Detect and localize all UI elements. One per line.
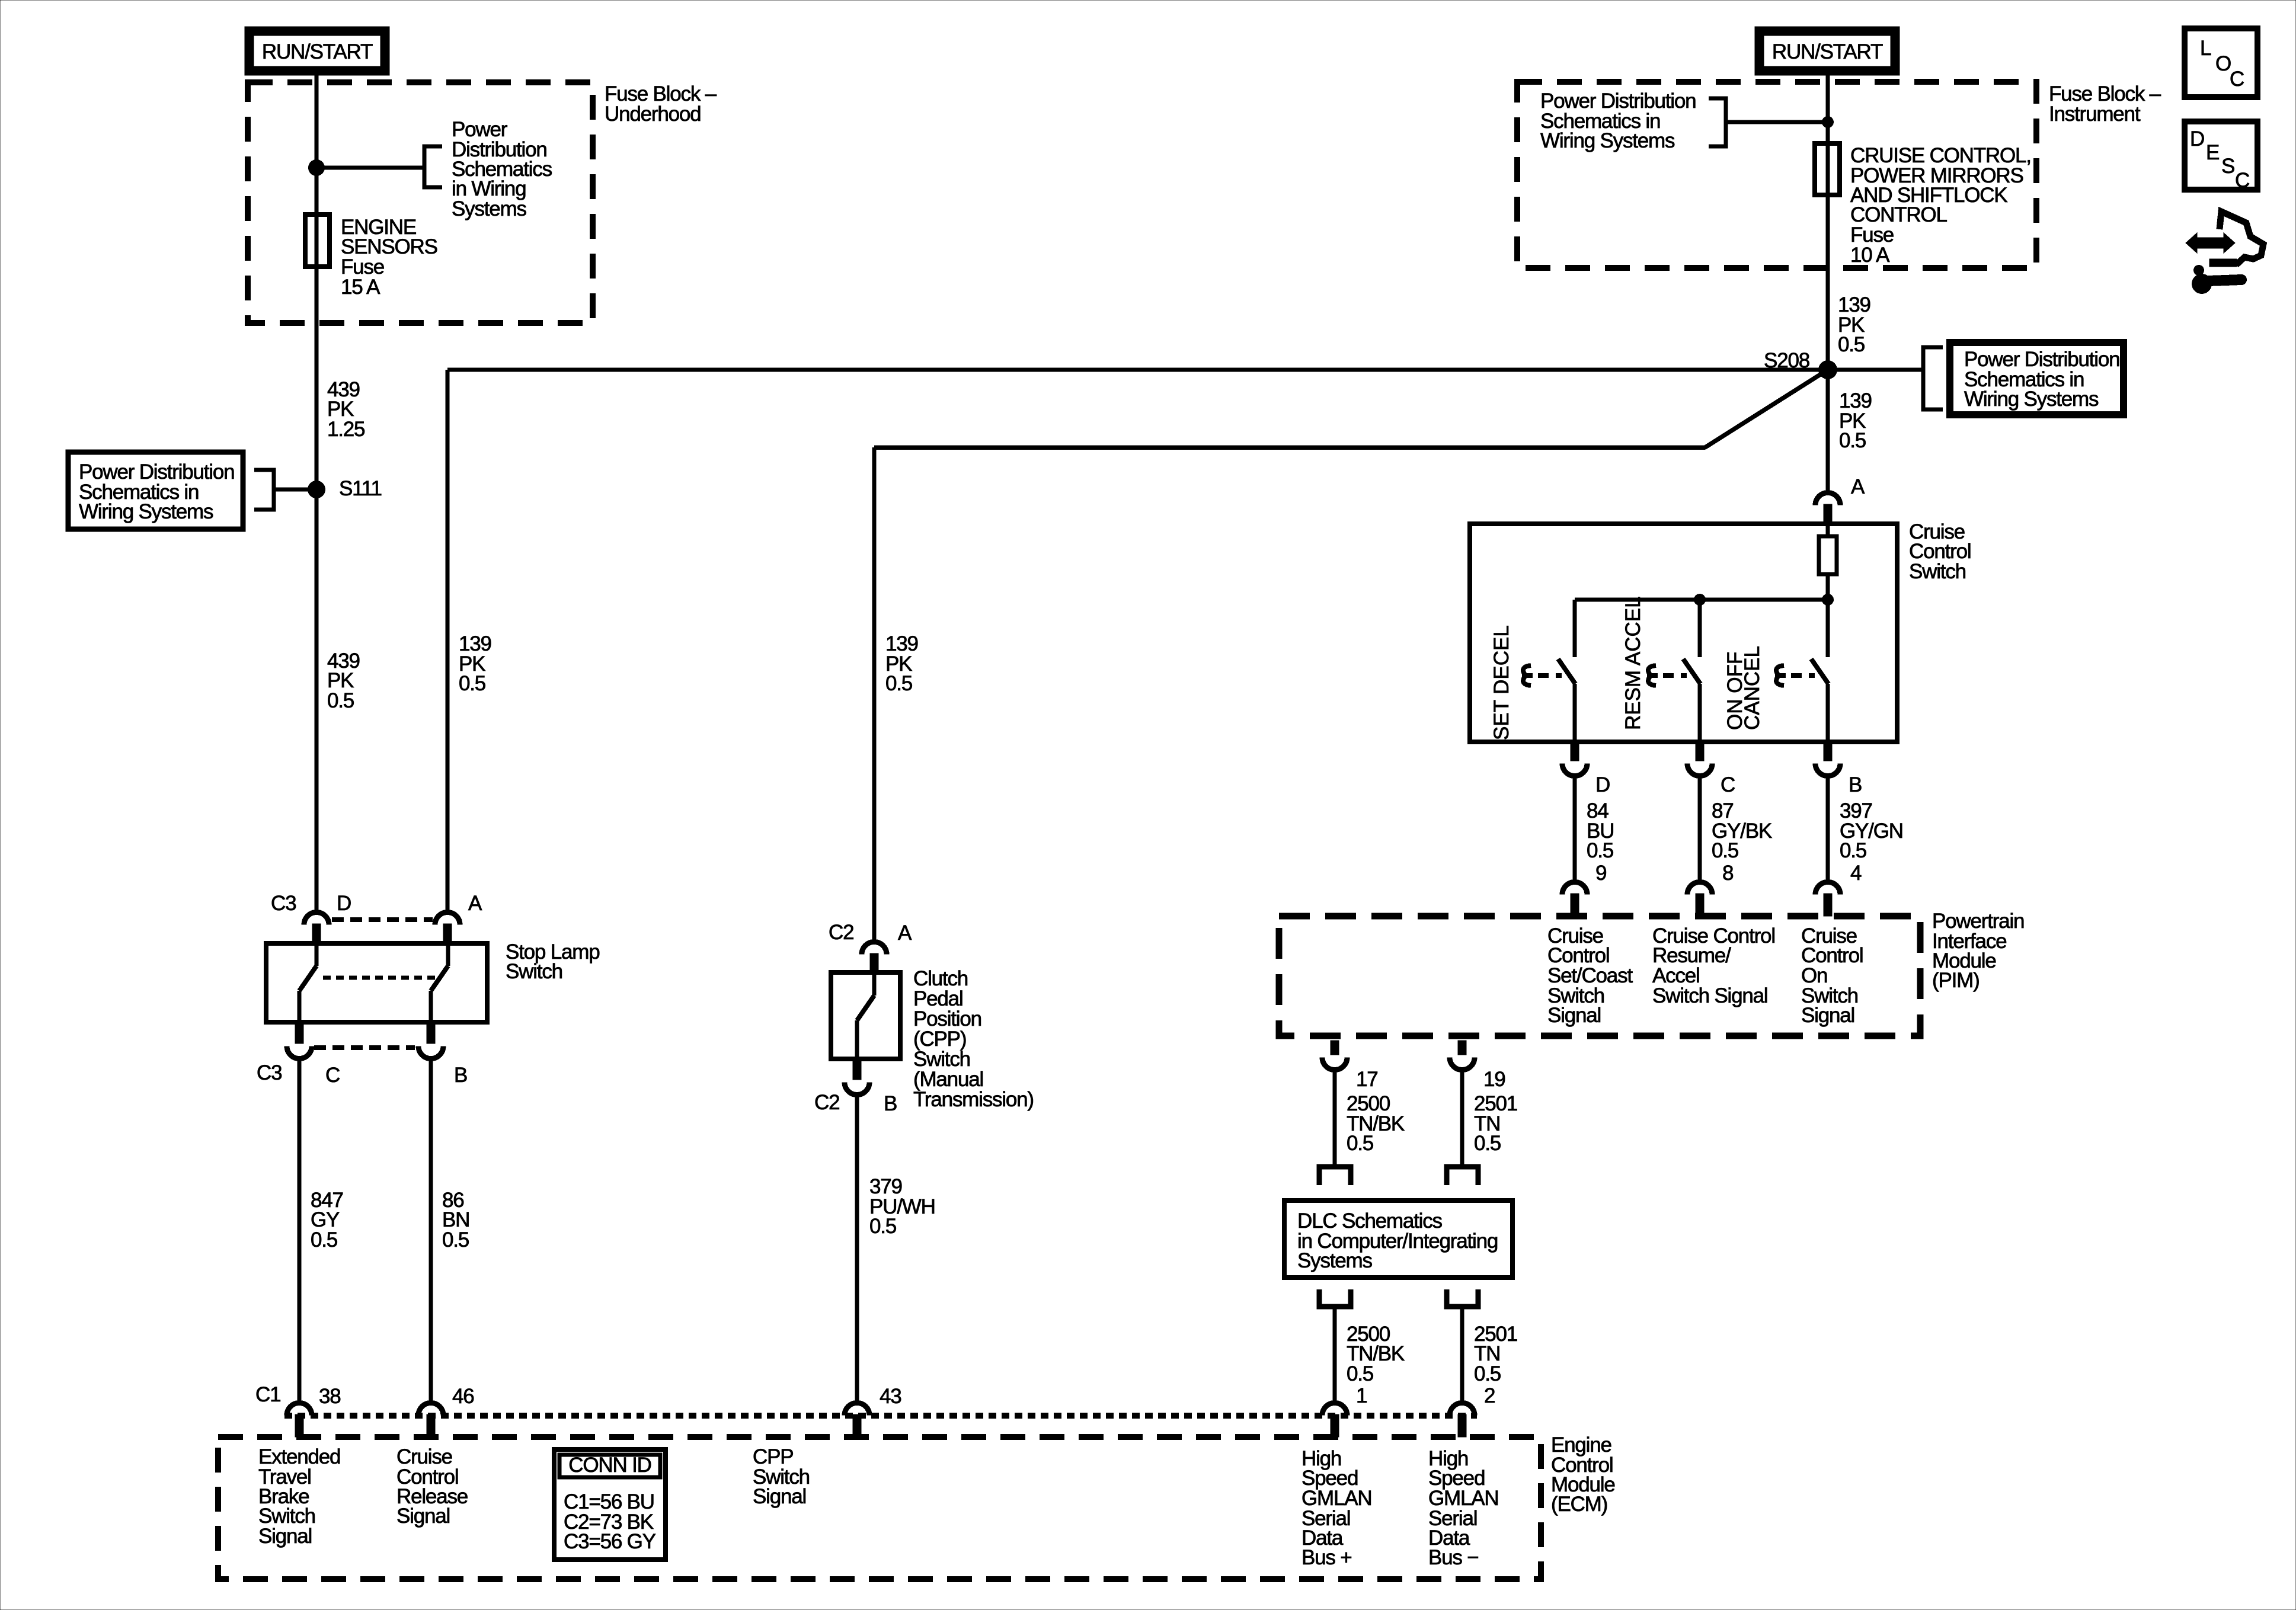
svg-text:C: C xyxy=(2235,169,2249,192)
svg-text:Transmission): Transmission) xyxy=(913,1088,1034,1111)
svg-text:Underhood: Underhood xyxy=(605,103,701,126)
svg-text:Systems: Systems xyxy=(452,197,526,220)
svg-text:0.5: 0.5 xyxy=(1474,1132,1501,1155)
svg-text:RUN/START: RUN/START xyxy=(262,40,373,63)
svg-text:Wiring Systems: Wiring Systems xyxy=(79,500,213,523)
svg-text:Signal: Signal xyxy=(396,1505,450,1528)
svg-text:2: 2 xyxy=(1484,1384,1495,1407)
svg-text:B: B xyxy=(1849,773,1862,796)
svg-text:Wiring Systems: Wiring Systems xyxy=(1964,388,2099,411)
svg-text:(ECM): (ECM) xyxy=(1551,1493,1607,1516)
svg-text:19: 19 xyxy=(1483,1068,1505,1091)
svg-text:0.5: 0.5 xyxy=(1347,1132,1373,1155)
svg-text:C2: C2 xyxy=(829,921,853,944)
svg-text:Systems: Systems xyxy=(1297,1249,1372,1272)
svg-text:S: S xyxy=(2221,155,2234,178)
svg-text:RUN/START: RUN/START xyxy=(1772,40,1883,63)
svg-text:SET DECEL: SET DECEL xyxy=(1490,625,1513,740)
svg-text:D: D xyxy=(2190,127,2204,151)
svg-text:E: E xyxy=(2206,141,2219,164)
svg-text:A: A xyxy=(1851,475,1865,498)
svg-text:L: L xyxy=(2200,37,2211,60)
svg-text:B: B xyxy=(454,1064,467,1087)
svg-text:4: 4 xyxy=(1850,862,1862,885)
svg-text:C: C xyxy=(2230,68,2244,91)
svg-text:C2: C2 xyxy=(814,1091,839,1114)
svg-text:0.5: 0.5 xyxy=(1838,333,1865,356)
svg-text:C: C xyxy=(1721,773,1735,796)
svg-text:Signal: Signal xyxy=(1801,1004,1854,1027)
svg-text:O: O xyxy=(2215,52,2231,75)
svg-text:A: A xyxy=(898,921,912,945)
svg-text:0.5: 0.5 xyxy=(442,1228,469,1251)
svg-text:Wiring Systems: Wiring Systems xyxy=(1540,129,1675,152)
svg-text:CANCEL: CANCEL xyxy=(1741,646,1764,730)
svg-text:0.5: 0.5 xyxy=(1840,839,1866,862)
svg-text:9: 9 xyxy=(1595,862,1606,885)
svg-text:C1: C1 xyxy=(255,1383,280,1406)
svg-text:17: 17 xyxy=(1356,1068,1378,1091)
svg-text:0.5: 0.5 xyxy=(459,672,485,695)
svg-text:0.5: 0.5 xyxy=(311,1228,337,1251)
svg-text:0.5: 0.5 xyxy=(1474,1362,1501,1385)
svg-text:15 A: 15 A xyxy=(341,276,380,299)
svg-text:C3: C3 xyxy=(271,892,296,915)
svg-text:Signal: Signal xyxy=(753,1485,806,1508)
svg-text:Instrument: Instrument xyxy=(2049,103,2141,126)
svg-text:43: 43 xyxy=(880,1385,901,1408)
svg-text:46: 46 xyxy=(452,1385,474,1408)
svg-text:Bus +: Bus + xyxy=(1302,1546,1351,1569)
svg-text:38: 38 xyxy=(319,1385,341,1408)
svg-text:RESM ACCEL: RESM ACCEL xyxy=(1622,596,1645,730)
svg-text:Signal: Signal xyxy=(1547,1004,1601,1027)
svg-text:Switch: Switch xyxy=(1909,560,1966,583)
svg-text:S208: S208 xyxy=(1764,349,1809,372)
svg-text:B: B xyxy=(884,1092,897,1115)
svg-text:0.5: 0.5 xyxy=(327,689,354,712)
svg-text:10 A: 10 A xyxy=(1850,244,1890,267)
svg-text:Switch: Switch xyxy=(506,960,562,983)
svg-text:1: 1 xyxy=(1356,1384,1367,1407)
svg-text:8: 8 xyxy=(1722,862,1733,885)
svg-text:0.5: 0.5 xyxy=(885,672,912,695)
svg-text:Signal: Signal xyxy=(258,1525,312,1548)
svg-text:D: D xyxy=(1595,773,1610,796)
svg-text:C: C xyxy=(325,1064,340,1087)
svg-text:(PIM): (PIM) xyxy=(1932,969,1980,992)
svg-text:1.25: 1.25 xyxy=(327,418,364,441)
svg-text:0.5: 0.5 xyxy=(1712,839,1738,862)
svg-text:0.5: 0.5 xyxy=(1347,1362,1373,1385)
svg-text:D: D xyxy=(337,892,351,915)
svg-text:Bus −: Bus − xyxy=(1428,1546,1478,1569)
svg-text:C3: C3 xyxy=(257,1061,282,1084)
svg-text:0.5: 0.5 xyxy=(1587,839,1613,862)
svg-text:0.5: 0.5 xyxy=(869,1215,896,1238)
svg-text:CONN ID: CONN ID xyxy=(568,1454,651,1477)
svg-text:C3=56 GY: C3=56 GY xyxy=(564,1530,656,1553)
svg-text:Switch Signal: Switch Signal xyxy=(1652,984,1768,1007)
svg-text:A: A xyxy=(468,892,482,915)
svg-text:S111: S111 xyxy=(339,477,382,500)
svg-text:0.5: 0.5 xyxy=(1839,429,1866,452)
